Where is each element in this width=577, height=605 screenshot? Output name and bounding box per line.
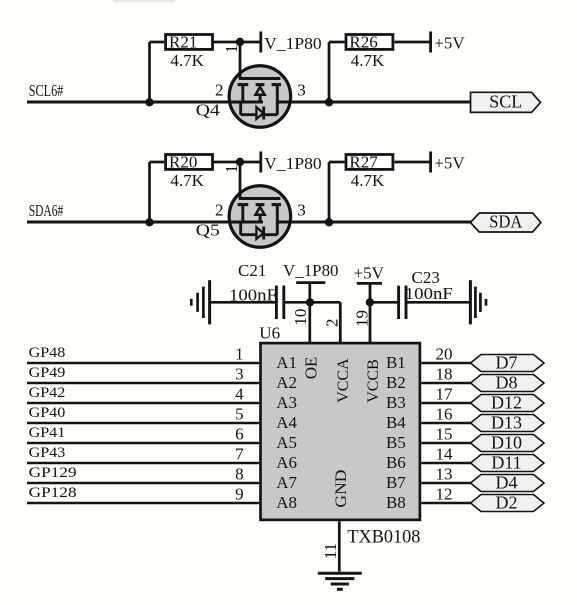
svg-text:GP42: GP42 [29, 385, 66, 401]
svg-text:A7: A7 [276, 473, 297, 492]
svg-text:4.7K: 4.7K [170, 51, 204, 70]
svg-text:B1: B1 [386, 353, 406, 372]
svg-text:SDA6#: SDA6# [29, 201, 64, 220]
svg-text:3: 3 [297, 81, 306, 100]
svg-text:Q5: Q5 [196, 221, 220, 240]
svg-text:D12: D12 [491, 393, 522, 413]
svg-text:4.7K: 4.7K [351, 51, 385, 70]
svg-text:+5V: +5V [434, 34, 465, 53]
svg-text:2: 2 [215, 201, 224, 220]
svg-text:13: 13 [436, 465, 453, 484]
svg-text:+5V: +5V [434, 154, 465, 173]
svg-text:8: 8 [235, 465, 244, 484]
svg-text:GP49: GP49 [29, 365, 66, 381]
svg-text:GP48: GP48 [29, 345, 66, 361]
svg-text:VCCB: VCCB [365, 359, 382, 403]
svg-text:18: 18 [436, 365, 453, 384]
svg-text:B7: B7 [386, 473, 406, 492]
svg-text:V_1P80: V_1P80 [264, 154, 322, 173]
svg-text:B4: B4 [386, 413, 406, 432]
svg-text:D10: D10 [491, 433, 522, 453]
svg-text:V_1P80: V_1P80 [283, 261, 339, 280]
svg-text:11: 11 [321, 543, 340, 559]
svg-text:C21: C21 [238, 261, 266, 280]
svg-text:15: 15 [436, 425, 453, 444]
svg-text:12: 12 [436, 485, 453, 504]
svg-text:SCL6#: SCL6# [29, 81, 64, 100]
svg-text:SCL: SCL [489, 92, 522, 112]
svg-text:D13: D13 [491, 413, 522, 433]
svg-text:GP129: GP129 [29, 465, 77, 481]
svg-text:V_1P80: V_1P80 [264, 34, 322, 53]
svg-text:A6: A6 [276, 453, 297, 472]
svg-text:10: 10 [291, 309, 310, 326]
svg-text:D8: D8 [496, 373, 518, 393]
svg-text:GND: GND [333, 470, 350, 508]
svg-text:A4: A4 [276, 413, 297, 432]
svg-text:100nF: 100nF [405, 284, 453, 303]
svg-text:D2: D2 [496, 493, 518, 513]
svg-text:2: 2 [322, 319, 341, 328]
svg-text:B2: B2 [386, 373, 406, 392]
svg-text:A5: A5 [276, 433, 297, 452]
svg-text:GP41: GP41 [29, 425, 66, 441]
svg-text:B6: B6 [386, 453, 406, 472]
svg-text:19: 19 [352, 310, 371, 327]
svg-text:GP128: GP128 [29, 485, 77, 501]
svg-text:A2: A2 [276, 373, 297, 392]
svg-text:OE: OE [302, 357, 321, 380]
svg-text:B5: B5 [386, 433, 406, 452]
svg-text:14: 14 [436, 445, 454, 464]
svg-text:U6: U6 [259, 324, 280, 343]
svg-text:SDA: SDA [489, 212, 522, 232]
svg-text:4.7K: 4.7K [351, 171, 385, 190]
svg-text:16: 16 [436, 405, 453, 424]
svg-text:4.7K: 4.7K [170, 171, 204, 190]
svg-text:2: 2 [215, 81, 224, 100]
svg-text:3: 3 [235, 365, 244, 384]
svg-text:A1: A1 [276, 353, 297, 372]
svg-text:3: 3 [297, 201, 306, 220]
svg-text:17: 17 [436, 385, 454, 404]
svg-text:20: 20 [436, 345, 453, 364]
svg-text:9: 9 [235, 485, 244, 504]
svg-text:VCCA: VCCA [335, 358, 352, 403]
svg-text:6: 6 [235, 425, 244, 444]
svg-text:1: 1 [222, 45, 241, 54]
svg-text:Q4: Q4 [196, 101, 221, 120]
svg-text:D4: D4 [496, 473, 518, 493]
svg-text:A3: A3 [276, 393, 297, 412]
svg-text:1: 1 [235, 345, 244, 364]
svg-text:7: 7 [235, 445, 244, 464]
svg-text:1: 1 [222, 165, 241, 174]
svg-text:A8: A8 [276, 493, 297, 512]
svg-text:GP43: GP43 [29, 445, 66, 461]
svg-text:D11: D11 [491, 453, 521, 473]
svg-text:4: 4 [235, 385, 244, 404]
svg-text:TXB0108: TXB0108 [347, 527, 420, 547]
svg-text:B8: B8 [386, 493, 406, 512]
svg-text:D7: D7 [496, 353, 518, 373]
svg-text:+5V: +5V [354, 264, 385, 283]
svg-text:100nF: 100nF [229, 285, 277, 304]
svg-text:GP40: GP40 [29, 405, 66, 421]
svg-text:B3: B3 [386, 393, 406, 412]
svg-text:5: 5 [235, 405, 244, 424]
